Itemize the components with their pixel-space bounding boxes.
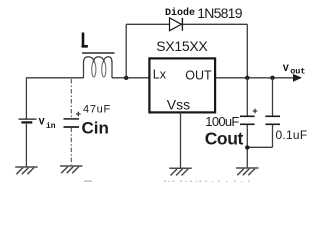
wire: diode branch vertical left (125, 24, 127, 78)
op-amp box: IC U1 SX15XX (149, 58, 215, 112)
wire: joining horizontal between cap branches (247, 146, 272, 148)
wire: dashed branch to Cin (upper) (70, 79, 72, 118)
node: junction OUT/diode/Cout (245, 76, 249, 80)
wire: diode branch top left (126, 23, 169, 25)
node: junction caps (245, 145, 249, 149)
svg-text:Vss: Vss (167, 96, 190, 112)
svg-text:V: V (39, 118, 45, 129)
ground (Vss) (169, 168, 191, 175)
wire: 0.1uF branch vertical lower (272, 125, 274, 147)
wire: left vertical from main to battery (25, 78, 27, 119)
ground (battery) (15, 167, 37, 174)
inductor L coil (84, 57, 113, 78)
plus sign Cin (76, 112, 81, 117)
wire: Cout branch vertical lower (246, 125, 248, 168)
wire: battery to ground (25, 124, 27, 167)
arrow Vout (293, 74, 302, 82)
wire: Cout branch vertical upper (246, 78, 248, 116)
wire: 0.1uF branch vertical upper (272, 78, 274, 116)
node: junction Lx/diode (124, 76, 128, 80)
ground (output caps) (236, 168, 258, 175)
inductor L label (drawn) (82, 33, 88, 47)
capacitor Cin plates (64, 118, 80, 120)
svg-text:OUT: OUT (185, 68, 212, 82)
capacitor 0.1uF plates (265, 115, 280, 117)
svg-text:Diode: Diode (165, 7, 195, 19)
capacitor Cout plates (240, 115, 255, 117)
svg-text:SX15XX: SX15XX (156, 38, 208, 54)
svg-text:V: V (283, 64, 289, 75)
inductor core bar (82, 52, 115, 54)
svg-text:in: in (46, 122, 56, 131)
wire: inductor to IC Lx pin (112, 77, 149, 79)
wire: main input horizontal left segment (26, 77, 84, 79)
svg-text:1N5819: 1N5819 (197, 5, 243, 21)
node: junction OUT/0.1uF (270, 76, 274, 80)
svg-text:out: out (290, 66, 305, 76)
wire: diode branch vertical right down to OUT line (246, 24, 248, 78)
caption fragment tops (cut off at bottom edge) (164, 180, 250, 182)
wire: diode branch top right (183, 23, 247, 25)
diode 1N5819 (170, 18, 182, 31)
battery Vin plates (19, 118, 37, 120)
svg-text:Cout: Cout (205, 129, 244, 149)
svg-text:47uF: 47uF (83, 104, 111, 116)
caption fragment (bluish) (84, 180, 92, 182)
svg-text:100uF: 100uF (205, 114, 239, 129)
plus sign Cout (253, 109, 258, 114)
svg-text:Cin: Cin (82, 118, 109, 137)
svg-text:0.1uF: 0.1uF (276, 128, 308, 142)
wire: dashed branch Cin to ground (lower) (70, 128, 72, 165)
ground (Cin) (60, 166, 82, 173)
wire: Vss pin to ground (180, 113, 182, 169)
svg-text:Lx: Lx (153, 68, 167, 82)
inductor loop 2 (102, 62, 106, 77)
wire: OUT pin to arrow (216, 77, 294, 79)
inductor loop 1 (92, 62, 96, 77)
